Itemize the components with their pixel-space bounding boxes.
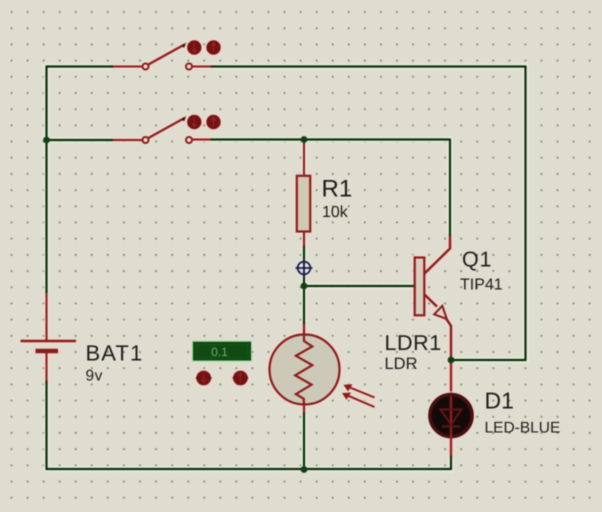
- wire: top horizontal from battery to SW1 left pin: [46, 65, 114, 67]
- switch SW1 left terminal circle: [143, 64, 149, 70]
- junction node: battery / SW2 branch: [43, 137, 50, 144]
- switch SW2 lever tip arrow: [182, 116, 187, 121]
- LED D1 cathode bar: [442, 426, 460, 428]
- switch SW1 right pin: [192, 66, 212, 68]
- wire: SW1 right pin to right vertical: [210, 65, 526, 67]
- LED D1 wire through body: [450, 396, 452, 436]
- battery BAT1 bottom pin: [46, 353, 48, 381]
- svg-text:Q1: Q1: [462, 248, 492, 272]
- switch SW1 up-button: [205, 39, 221, 55]
- switch SW1 lever tip arrow: [182, 42, 187, 47]
- resistor R1 bottom pin: [303, 232, 305, 247]
- red glow underlay (pink halo around red component strokes): [21, 45, 452, 457]
- switch SW1 left pin: [113, 66, 143, 68]
- switch SW2 left pin: [113, 139, 143, 141]
- transistor Q1 emitter arrowhead (open): [434, 306, 447, 319]
- junction node: R1 bottom / base / LDR: [301, 283, 308, 290]
- svg-text:9v: 9v: [86, 368, 103, 385]
- svg-text:LDR1: LDR1: [385, 331, 442, 355]
- svg-text:TIP41: TIP41: [460, 277, 503, 294]
- switch SW1 lever: [148, 45, 185, 66]
- wire: R1 bottom to LDR (green part): [303, 245, 305, 325]
- junction node: emitter / LED / right wire: [448, 357, 455, 364]
- transistor Q1 emitter lead to junction: [446, 318, 451, 360]
- wire: SW2 right pin to collector corner: [210, 138, 450, 140]
- wire: collector vertical: [449, 139, 451, 237]
- battery BAT1 top pin: [46, 293, 48, 340]
- wire: base wire from R1/LDR node to Q1 base: [304, 285, 415, 287]
- wire glow underlay (light halo around all wires): [46, 66, 527, 471]
- svg-text:R1: R1: [322, 176, 353, 203]
- wire: LED bottom to bottom rail (green part): [450, 455, 452, 470]
- LED D1 top pin from junction: [450, 360, 452, 395]
- junction node: R1 top: [301, 136, 308, 143]
- battery BAT1 long plate: [21, 340, 77, 343]
- switch SW2 down-button: [186, 114, 202, 130]
- wire: battery top vertical (left net): [45, 67, 47, 294]
- LDR1 body circle: [270, 335, 340, 405]
- wire: second row from battery junction to SW2: [47, 139, 114, 141]
- wire: emitter junction to right vertical: [451, 359, 527, 361]
- LED D1 body: [430, 395, 472, 437]
- LDR1 zigzag resistor element: [295, 335, 312, 405]
- origin marker (navy crosshair circle): [296, 260, 313, 277]
- resistor R1 top pin: [303, 140, 305, 177]
- svg-text:10k: 10k: [322, 204, 349, 221]
- LED D1 diode triangle: [441, 410, 462, 425]
- LDR1 light arrow 1: [348, 387, 375, 398]
- svg-text:LED-BLUE: LED-BLUE: [485, 420, 561, 437]
- switch SW2 lever: [148, 118, 185, 139]
- transistor Q1 emitter lead: [425, 295, 438, 307]
- LDR control display box: [193, 341, 252, 361]
- transistor Q1 base bar: [415, 258, 425, 316]
- LED D1 halo: [428, 393, 474, 439]
- LED D1 bottom pin: [450, 436, 452, 456]
- battery BAT1 short plate: [36, 349, 59, 354]
- resistor R1 body: [297, 176, 310, 232]
- wire: right vertical down: [524, 66, 526, 361]
- LDR1 bottom pin: [303, 402, 305, 413]
- svg-text:LDR: LDR: [385, 355, 418, 373]
- LDR1 top pin: [303, 324, 305, 340]
- transistor Q1 collector lead: [425, 236, 451, 274]
- switch SW2 right terminal circle: [186, 137, 192, 143]
- wire: battery bottom vertical: [45, 380, 47, 469]
- switch SW2 up-button: [205, 114, 221, 130]
- wire: LDR bottom green part: [303, 412, 305, 470]
- switch SW2 left terminal circle: [143, 137, 149, 143]
- LDR1 light arrow 2: [346, 395, 375, 407]
- switch SW1 right terminal circle: [186, 64, 192, 70]
- switch SW2 right pin: [192, 139, 212, 141]
- svg-text:BAT1: BAT1: [86, 341, 144, 366]
- switch SW1 down-button: [186, 39, 202, 55]
- svg-text:0.1: 0.1: [211, 345, 228, 359]
- svg-text:D1: D1: [485, 388, 514, 414]
- LDR control up-knob: [232, 370, 248, 386]
- LDR control down-knob: [196, 370, 212, 386]
- junction node: LDR bottom on bottom rail: [301, 466, 308, 473]
- wire: bottom horizontal: [46, 468, 452, 470]
